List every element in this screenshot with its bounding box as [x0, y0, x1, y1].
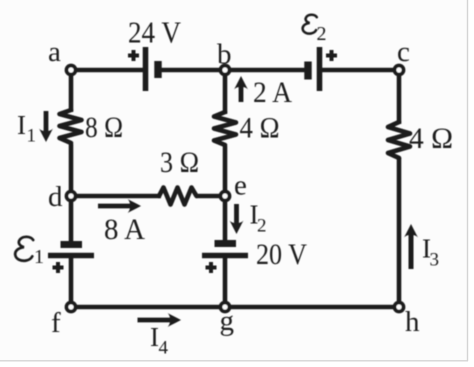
svg-text:h: h	[405, 306, 420, 338]
wire a down to 8-ohm resistor	[69, 70, 74, 112]
svg-text:1: 1	[27, 126, 37, 147]
wire E2 battery to c	[321, 68, 399, 73]
svg-text:a: a	[48, 36, 61, 68]
node f terminal circle	[67, 303, 76, 312]
resistor R 3-ohm middle horizontal	[159, 188, 197, 205]
label script-E2 emf	[303, 15, 327, 45]
svg-text:8 Ω: 8 Ω	[85, 111, 123, 144]
current arrow 2A up	[234, 76, 248, 102]
wire 8-ohm resistor to d	[69, 144, 74, 196]
wire f to g	[71, 305, 225, 310]
node e terminal circle	[221, 192, 230, 201]
battery E1 short plate	[61, 241, 83, 248]
wire 3-ohm resistor to e	[196, 194, 225, 199]
wire 24V battery to b	[156, 68, 225, 73]
svg-text:2: 2	[317, 23, 327, 45]
svg-text:d: d	[48, 181, 63, 213]
svg-text:e: e	[234, 170, 247, 202]
svg-text:3 Ω: 3 Ω	[160, 146, 199, 179]
svg-text:f: f	[51, 307, 61, 339]
wire d down to E1 battery	[69, 196, 74, 245]
battery E2 short plate	[304, 62, 311, 80]
wire b to E2 battery	[225, 68, 306, 73]
wire e down to 20V battery	[223, 196, 228, 244]
battery E1 plus sign	[53, 262, 64, 273]
node b terminal circle	[221, 66, 230, 75]
svg-text:24 V: 24 V	[128, 15, 182, 50]
node c terminal circle	[395, 66, 404, 75]
wire 20V battery to g	[223, 254, 228, 307]
wire right 4-ohm resistor to h	[397, 158, 402, 307]
battery 20V plus sign	[206, 262, 217, 273]
svg-text:2: 2	[257, 216, 267, 237]
node g terminal circle	[221, 303, 230, 312]
svg-text:3: 3	[430, 250, 440, 271]
node h terminal circle	[395, 303, 404, 312]
svg-text:2 A: 2 A	[253, 76, 292, 109]
svg-text:4 Ω: 4 Ω	[409, 122, 453, 155]
svg-text:4: 4	[159, 338, 169, 359]
battery E2 long plate	[317, 47, 323, 91]
resistor R 4-ohm middle branch	[214, 112, 236, 145]
svg-text:20 V: 20 V	[256, 238, 307, 271]
wire b down to 4-ohm resistor	[223, 70, 228, 114]
svg-text:I: I	[17, 110, 26, 140]
node d terminal circle	[67, 192, 76, 201]
label script-E1 emf	[15, 237, 44, 268]
current arrow I2 down	[230, 204, 244, 234]
svg-text:1: 1	[34, 246, 44, 268]
battery E2 plus sign	[326, 50, 337, 61]
wire d to 3-ohm resistor	[71, 194, 161, 199]
resistor R 4-ohm right branch	[388, 122, 410, 158]
battery 20V short plate	[215, 240, 237, 247]
node a terminal circle	[67, 66, 76, 75]
svg-text:b: b	[217, 39, 232, 71]
battery E1 long plate	[48, 253, 94, 258]
svg-text:g: g	[220, 305, 235, 337]
wire g to h	[225, 305, 399, 310]
current arrow I3 up	[404, 224, 418, 269]
battery 20V long plate	[202, 253, 248, 258]
current arrow 8A right	[98, 199, 141, 213]
battery 24V long plate	[143, 47, 149, 91]
wire c down to right 4-ohm resistor	[397, 70, 402, 124]
svg-text:8 A: 8 A	[104, 213, 145, 246]
current arrow I4 right	[138, 313, 182, 327]
svg-text:c: c	[397, 36, 410, 68]
wire 4-ohm resistor to e	[223, 146, 228, 196]
battery 24V short plate	[154, 61, 161, 78]
battery 24V plus sign	[128, 50, 139, 61]
current arrow I1 down	[39, 111, 53, 142]
resistor R 8-ohm left branch	[60, 110, 82, 143]
svg-text:4 Ω: 4 Ω	[240, 112, 280, 145]
wire E1 battery to f	[69, 254, 74, 307]
wire a to 24V battery	[71, 68, 143, 73]
